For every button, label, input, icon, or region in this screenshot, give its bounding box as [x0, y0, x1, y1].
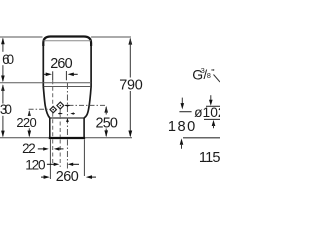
svg-text:ø102: ø102 — [194, 105, 220, 120]
dim 60 label — [1, 52, 15, 65]
dia 102 bottom tangent line — [204, 118, 220, 120]
svg-text:790: 790 — [119, 77, 143, 93]
centerline dash-dot — [66, 83, 68, 137]
pedestal left side — [49, 118, 51, 138]
dim 220 label — [15, 116, 37, 128]
dim 260 bottom left arrow — [41, 176, 46, 178]
floor extension line right — [85, 137, 132, 139]
dim 60: top extension line — [0, 36, 43, 38]
dim 790 line + arrows — [128, 38, 132, 45]
fixing hole center line horizontal left — [29, 108, 57, 110]
fixing hole diamond 2 — [57, 102, 64, 109]
centerline below floor — [66, 140, 68, 169]
dim 30 arrows — [1, 84, 5, 91]
tank right side — [90, 44, 92, 87]
floor extension line left — [0, 137, 49, 139]
tank left side — [42, 44, 44, 87]
dim 22 arrows — [38, 148, 44, 150]
dim 115/180 reference long line — [183, 137, 220, 139]
bowl right curve — [84, 87, 91, 119]
svg-text:30: 30 — [0, 102, 12, 117]
dim 260 top right arrow — [68, 73, 74, 77]
small arrow at diamond2 — [65, 104, 69, 106]
dia 102 bottom arrow — [212, 120, 216, 126]
dim 180 reference short line — [179, 111, 191, 113]
bowl left curve — [43, 87, 50, 119]
hidden line L1 tick — [52, 71, 54, 80]
svg-text:260: 260 — [50, 56, 72, 72]
svg-text:60: 60 — [2, 52, 14, 67]
floor line bold under pedestal — [49, 137, 85, 139]
dia 102 top tangent line — [206, 105, 220, 107]
dim 790 label — [118, 78, 144, 91]
tank/bowl joint line lower — [43, 86, 91, 88]
dim 120 arrows — [47, 163, 54, 165]
fixing hole center line horizontal right — [58, 104, 106, 106]
hidden line L2 dashed — [59, 109, 61, 138]
pedestal right side — [83, 118, 85, 138]
svg-text:120: 120 — [25, 157, 46, 172]
dim 790: top extension right — [91, 36, 131, 38]
dim 180 bottom arrow — [180, 138, 184, 144]
svg-text:250: 250 — [96, 115, 118, 131]
svg-text:115: 115 — [199, 150, 220, 166]
dim 260 top left arrow — [44, 73, 47, 75]
fixing hole diamond 1 — [50, 106, 56, 112]
tank lid line — [44, 40, 91, 42]
svg-text:22: 22 — [22, 141, 36, 156]
dim 180 top arrow — [181, 98, 183, 105]
pedestal left edge extension below floor — [49, 139, 51, 179]
dia 102 top arrow — [210, 95, 212, 101]
pedestal top line — [50, 117, 84, 119]
small dimension arrows row y=113.6 — [58, 113, 59, 115]
L2 below floor — [59, 140, 61, 168]
svg-text:260: 260 — [56, 169, 79, 185]
hidden line L1 below floor — [52, 140, 54, 164]
small up arrow at pedestal top center — [66, 118, 69, 122]
hidden line L1 dashed — [52, 80, 54, 137]
dim 260 bottom right arrow — [86, 175, 92, 179]
hidden line L2 tick — [65, 71, 67, 80]
dim 30 label — [0, 104, 13, 115]
dim 60 line + arrows — [2, 39, 4, 82]
svg-text:220: 220 — [16, 115, 36, 130]
dim 250 label — [94, 115, 119, 128]
pedestal right edge extension below floor — [83, 139, 85, 176]
cistern tank top outline (bold) — [43, 37, 91, 47]
dim 220 line + arrows — [28, 110, 32, 117]
tank/bowl joint line upper with left extension — [0, 82, 91, 84]
svg-text:180: 180 — [168, 119, 195, 135]
G3/8 leader line — [214, 75, 221, 83]
dim 250 line + arrows — [104, 106, 108, 113]
